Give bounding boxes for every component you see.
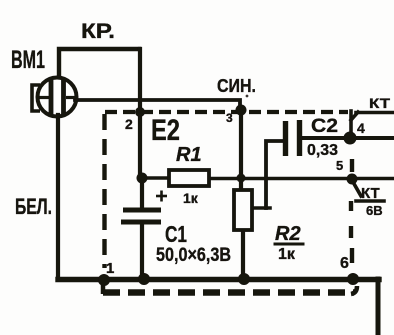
svg-text:4: 4 bbox=[357, 120, 365, 136]
svg-text:СИН.: СИН. bbox=[217, 76, 256, 96]
svg-text:С1: С1 bbox=[165, 221, 187, 247]
svg-text:3: 3 bbox=[226, 111, 233, 125]
svg-text:Е2: Е2 bbox=[151, 114, 180, 147]
svg-text:6В: 6В bbox=[366, 203, 383, 218]
svg-text:КР.: КР. bbox=[81, 20, 115, 43]
svg-text:50,0×6,3В: 50,0×6,3В bbox=[156, 245, 231, 266]
svg-text:R1: R1 bbox=[176, 144, 202, 166]
svg-text:R2: R2 bbox=[275, 223, 301, 245]
svg-text:0,33: 0,33 bbox=[307, 142, 338, 159]
svg-text:6: 6 bbox=[340, 255, 349, 272]
svg-text:ВМ1: ВМ1 bbox=[11, 46, 45, 74]
svg-text:КТ: КТ bbox=[361, 185, 380, 202]
svg-text:1к: 1к bbox=[183, 190, 199, 206]
svg-text:1к: 1к bbox=[278, 246, 296, 263]
svg-text:5: 5 bbox=[336, 158, 343, 173]
svg-text:1: 1 bbox=[106, 260, 114, 277]
svg-text:2: 2 bbox=[125, 116, 133, 132]
svg-text:БЕЛ.: БЕЛ. bbox=[15, 194, 52, 219]
svg-text:С2: С2 bbox=[311, 116, 338, 137]
svg-text:КТ: КТ bbox=[369, 95, 391, 111]
